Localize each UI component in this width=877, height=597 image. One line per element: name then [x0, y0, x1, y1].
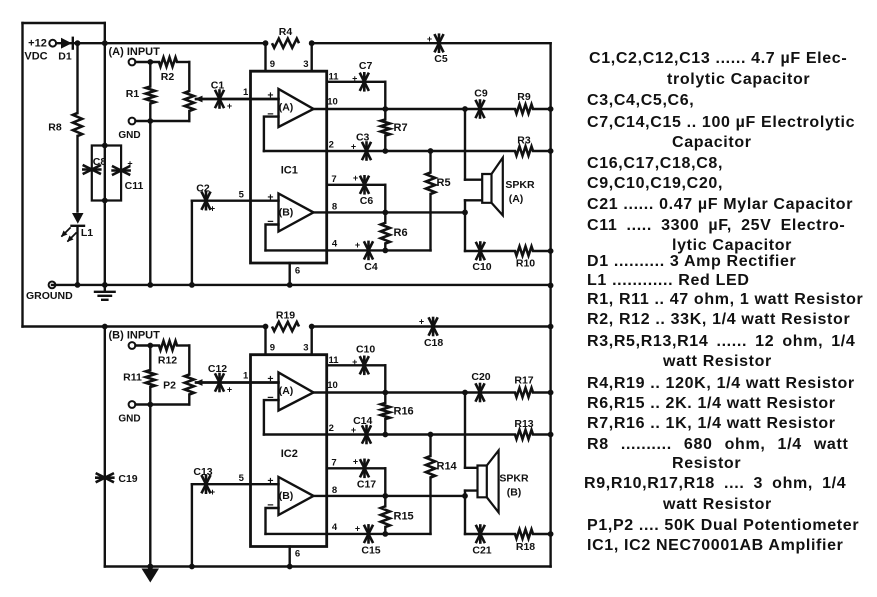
svg-text:7: 7: [331, 174, 336, 185]
svg-text:VDC: VDC: [24, 51, 47, 63]
svg-text:11: 11: [328, 355, 339, 366]
resistor R16 pin10 to pin2 line: [384, 393, 386, 404]
potentiometer: [188, 62, 190, 91]
capacitor C10: [476, 243, 484, 259]
resistor R6 pin8 to pin4 line: [384, 212, 386, 222]
svg-text:2: 2: [329, 423, 334, 434]
resistor R15 pin8 to pin4 line: [384, 496, 386, 506]
wire pin 4 line with capacitor C15: [266, 533, 431, 535]
capacitor C18 on channel B top line: [429, 319, 437, 335]
svg-text:+: +: [351, 425, 356, 435]
svg-text:R4: R4: [279, 26, 293, 38]
speaker SPKR (B): [478, 466, 487, 498]
svg-text:+: +: [210, 204, 215, 214]
capacitor C12: [216, 375, 224, 391]
wire C2 left plate down to ground: [191, 201, 193, 285]
wire pin 1 input to op-amp A of IC1: [196, 98, 279, 100]
ground arrow below channel B line: [142, 569, 160, 583]
LED emission arrows: [62, 228, 70, 236]
op-amp IC2B: [279, 477, 314, 515]
svg-text:(A): (A): [509, 193, 524, 205]
resistor R19 (feedback on top line): [272, 322, 299, 331]
svg-text:C4: C4: [364, 261, 378, 273]
svg-text:R14: R14: [437, 461, 458, 473]
resistor R2: [159, 57, 177, 66]
wire pin 4 line with capacitor C4: [266, 249, 431, 251]
svg-text:(B): (B): [279, 207, 294, 219]
op-amp IC1A: [279, 89, 314, 127]
terminal GND input ground: [129, 401, 136, 408]
wire speaker top branch from output line: [462, 106, 468, 112]
svg-text:C5: C5: [434, 53, 448, 65]
svg-text:R8: R8: [48, 121, 62, 133]
svg-text:R9: R9: [517, 91, 531, 103]
wire pin 10 output line of op-amp A to capacitor C20 and resistor R17: [314, 391, 516, 393]
resistor R5 between pin2 line and pin4 line: [429, 151, 431, 173]
LED L1: [72, 213, 84, 224]
resistor R1: [149, 62, 151, 87]
svg-text:−: −: [267, 109, 273, 121]
capacitor C14: [363, 427, 371, 443]
wire feedback minus to pin 4 line: [266, 225, 279, 251]
svg-text:−: −: [267, 392, 273, 404]
wire feedback minus to pin 4 line: [266, 508, 279, 534]
svg-text:R18: R18: [516, 541, 535, 553]
svg-text:GROUND: GROUND: [26, 290, 73, 302]
op-amp IC2A: [279, 373, 314, 411]
capacitor C21: [476, 526, 484, 542]
wire capacitor C13 to pin 5: [192, 483, 279, 485]
svg-text:+: +: [227, 101, 232, 111]
capacitor C8 C11 branch rectangle: [92, 146, 121, 201]
capacitor C10: [360, 357, 368, 373]
svg-text:+: +: [227, 385, 232, 395]
svg-text:1: 1: [243, 87, 249, 98]
wire speaker bottom branch to capacitor C21: [465, 489, 482, 491]
svg-text:5: 5: [239, 473, 245, 484]
svg-text:+: +: [427, 34, 432, 44]
svg-text:GND: GND: [118, 413, 140, 424]
svg-text:9: 9: [270, 343, 275, 354]
svg-text:L1: L1: [81, 227, 93, 239]
svg-text:7: 7: [331, 458, 336, 469]
svg-text:+: +: [353, 457, 358, 467]
svg-text:C1: C1: [211, 80, 225, 92]
svg-text:+: +: [127, 159, 132, 169]
capacitor C13: [202, 476, 210, 492]
svg-text:R2: R2: [161, 71, 175, 83]
wire pin 2 line with capacitor C3 to resistor R3: [264, 150, 515, 152]
svg-text:(B): (B): [279, 490, 294, 502]
svg-text:R1: R1: [126, 88, 140, 100]
resistor R8: [76, 43, 78, 113]
svg-text:11: 11: [328, 72, 339, 83]
resistor R14 between pin2 line and pin4 line: [429, 435, 431, 457]
wire gnd to pot bottom: [136, 403, 190, 405]
terminal GND input ground: [129, 118, 136, 125]
wire pin 8 output line of op-amp B: [314, 495, 466, 497]
wire pin 8 output line of op-amp B: [314, 211, 466, 213]
svg-text:C6: C6: [360, 195, 374, 207]
svg-text:−: −: [267, 500, 273, 512]
shared mid line channel A bottom / channel B top: [23, 325, 266, 327]
terminal +12 VDC: [49, 40, 56, 47]
svg-text:2: 2: [329, 140, 334, 151]
svg-text:R11: R11: [123, 372, 142, 384]
wire pin 11 line with capacitor C10: [327, 364, 386, 366]
capacitor C4: [365, 242, 373, 258]
svg-text:C7: C7: [359, 60, 373, 72]
terminal GROUND: [49, 282, 56, 289]
wire speaker top branch from output line: [462, 390, 468, 396]
svg-text:5: 5: [239, 190, 245, 201]
svg-text:+: +: [355, 524, 360, 534]
svg-text:(A) INPUT: (A) INPUT: [109, 46, 161, 58]
wire pin 7 line with capacitor C6: [327, 184, 386, 186]
resistor R7 pin10 to pin2 line: [384, 109, 386, 120]
svg-text:C21: C21: [472, 545, 491, 557]
capacitor C20: [476, 385, 484, 401]
svg-text:+: +: [210, 487, 215, 497]
svg-text:P2: P2: [163, 380, 176, 392]
svg-text:4: 4: [332, 239, 338, 250]
capacitor C7: [360, 74, 368, 90]
svg-text:+: +: [419, 317, 424, 327]
op-amp IC1B: [279, 194, 314, 232]
wire pin 2 line with capacitor C14 to resistor R13: [264, 433, 515, 435]
wire input to resistor R2: [136, 61, 160, 63]
terminal (B) input: [129, 342, 136, 349]
wire pin 10 output line of op-amp A to capacitor C9 and resistor R9: [314, 108, 516, 110]
svg-text:10: 10: [327, 380, 338, 391]
svg-text:C3: C3: [356, 131, 370, 143]
channel A ground bus: [52, 284, 551, 286]
capacitor C11: [113, 167, 129, 175]
svg-text:8: 8: [332, 202, 337, 213]
wire pot wiper through capacitor C12 to pin 1: [196, 381, 279, 383]
svg-text:IC1: IC1: [281, 165, 298, 177]
svg-text:R13: R13: [514, 418, 533, 430]
svg-text:R16: R16: [394, 406, 414, 418]
wire C13 left plate down to ground: [191, 484, 193, 566]
diode D1: [61, 38, 72, 49]
right edge vertical: [549, 43, 551, 566]
svg-text:−: −: [267, 216, 273, 228]
resistor R12: [159, 341, 177, 350]
terminal (A) input: [129, 59, 136, 66]
resistor R18: [515, 529, 533, 538]
svg-text:+: +: [355, 240, 360, 250]
resistor R10: [515, 246, 533, 255]
svg-text:R5: R5: [437, 177, 451, 189]
capacitor C9: [476, 101, 484, 117]
svg-text:6: 6: [295, 549, 300, 560]
svg-text:6: 6: [295, 266, 300, 277]
resistor R3: [515, 146, 533, 155]
svg-text:C12: C12: [208, 363, 227, 375]
svg-text:R15: R15: [394, 511, 414, 523]
IC IC1 package outline: [251, 71, 327, 263]
wire speaker bottom branch to capacitor C10: [465, 199, 482, 201]
capacitor C2: [202, 193, 210, 209]
resistor R4 (feedback on top line): [272, 39, 299, 48]
outer frame left edge: [21, 23, 23, 327]
wire stub pin 3 of IC1: [311, 43, 313, 71]
svg-text:C13: C13: [193, 466, 212, 478]
IC IC2 package outline: [251, 355, 327, 547]
capacitor C17: [361, 460, 369, 476]
resistor R11: [149, 346, 151, 371]
svg-text:GND: GND: [118, 130, 140, 141]
wire stub pin 3 of IC2: [311, 327, 313, 355]
power box right edge / C8 C11 branch: [104, 23, 106, 285]
svg-text:+12: +12: [28, 38, 47, 50]
svg-text:3: 3: [303, 343, 308, 354]
svg-text:+: +: [352, 357, 357, 367]
svg-text:R12: R12: [158, 355, 177, 367]
svg-text:R19: R19: [276, 309, 295, 321]
svg-text:SPKR: SPKR: [505, 179, 535, 191]
svg-text:R6: R6: [394, 227, 408, 239]
wire capacitor C2 to pin 5: [192, 199, 279, 201]
svg-text:(A): (A): [279, 385, 294, 397]
svg-text:D1: D1: [58, 51, 72, 63]
wire feedback minus input to pin 2 line: [264, 117, 279, 151]
svg-text:(B): (B): [507, 487, 522, 499]
svg-text:4: 4: [332, 522, 338, 533]
svg-text:C19: C19: [118, 473, 137, 485]
svg-text:C9: C9: [474, 88, 488, 100]
svg-text:IC2: IC2: [281, 448, 298, 460]
wire pin 6 stub to ground bus: [289, 263, 291, 285]
channel B left edge: [104, 327, 106, 567]
capacitor C5 on supply line: [435, 35, 443, 51]
svg-text:8: 8: [332, 485, 337, 496]
svg-text:R17: R17: [514, 375, 533, 387]
svg-text:+: +: [353, 173, 358, 183]
wire +12 through diode D1: [56, 42, 105, 44]
svg-text:+: +: [352, 74, 357, 84]
svg-text:R10: R10: [516, 258, 535, 270]
capacitor C8: [84, 166, 100, 174]
wire stub pin 9 of IC1: [264, 43, 266, 71]
svg-text:9: 9: [270, 59, 275, 70]
ground symbol: [104, 285, 106, 292]
wire pin 11 line with capacitor C7: [327, 81, 386, 83]
svg-text:(B) INPUT: (B) INPUT: [109, 330, 161, 342]
wire feedback minus input to pin 2 line: [264, 400, 279, 434]
wire pin 7 line with capacitor C17: [327, 467, 386, 469]
wire pin 1 input to op-amp A of IC2: [196, 381, 279, 383]
junction dots on right edge: [548, 106, 554, 112]
wire pot wiper through capacitor C1 to pin 1: [196, 98, 279, 100]
capacitor C3: [363, 143, 371, 159]
svg-text:R3: R3: [517, 135, 531, 147]
svg-text:C10: C10: [356, 344, 375, 356]
power box top edge: [23, 22, 105, 24]
capacitor C6: [361, 177, 369, 193]
svg-text:3: 3: [303, 59, 308, 70]
wire R1 junction down to ground bus: [149, 121, 151, 285]
resistor R13: [515, 430, 533, 439]
channel B bottom ground line: [105, 565, 551, 567]
svg-text:C18: C18: [424, 337, 443, 349]
svg-text:C20: C20: [471, 371, 490, 383]
svg-text:1: 1: [243, 371, 249, 382]
svg-text:C10: C10: [472, 261, 491, 273]
wire stub pin 9 of IC2: [264, 327, 266, 355]
svg-text:+: +: [351, 142, 356, 152]
svg-text:(A): (A): [279, 102, 294, 114]
speaker SPKR (A): [482, 174, 491, 203]
svg-text:C17: C17: [357, 479, 376, 491]
capacitor C19 on channel B left edge: [97, 474, 113, 482]
svg-text:C11: C11: [125, 180, 144, 192]
svg-text:C15: C15: [361, 545, 380, 557]
capacitor C1: [216, 91, 224, 107]
svg-text:C8: C8: [93, 156, 107, 168]
capacitor C15: [365, 526, 373, 542]
svg-text:R7: R7: [394, 122, 408, 134]
svg-text:10: 10: [327, 97, 338, 108]
wire input to resistor R12: [136, 344, 160, 346]
channel A top supply line: [105, 42, 266, 44]
wire R11 junction down to ground bus: [149, 405, 151, 567]
svg-text:C2: C2: [196, 183, 210, 195]
potentiometer P2: [188, 346, 190, 375]
wire gnd to pot bottom: [136, 120, 190, 122]
wire pin 6 stub to ground bus: [289, 547, 291, 567]
svg-text:SPKR: SPKR: [499, 473, 529, 485]
